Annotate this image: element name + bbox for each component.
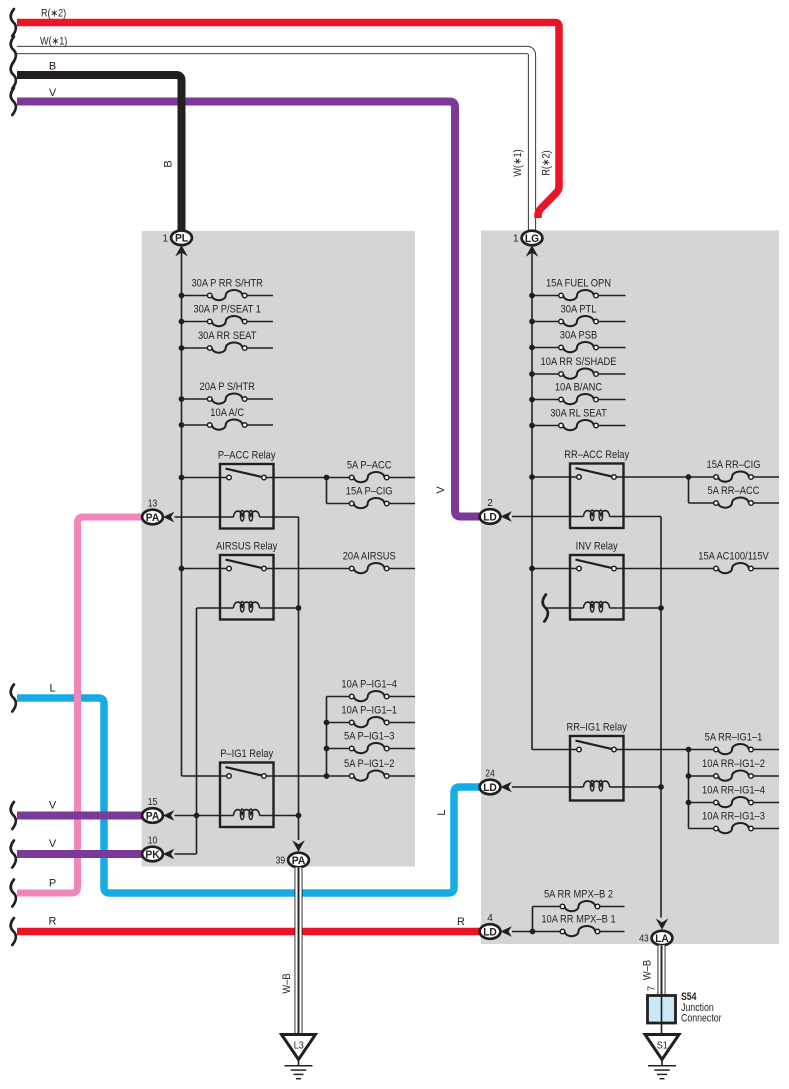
fuse 5A P–IG1–3: [327, 730, 416, 753]
wire L cyan: [17, 698, 486, 893]
wire P-ACC switch to fuses: [266, 477, 349, 479]
continuation squiggle L: [11, 685, 16, 712]
svg-text:L: L: [436, 809, 448, 815]
relay INV: [570, 541, 624, 620]
wire P-ACC coil to down-bus: [260, 516, 299, 518]
fuse 5A RR-ACC: [689, 485, 780, 508]
wire B black: [17, 75, 182, 231]
wire P-IG1 switch to fuses: [266, 775, 349, 777]
wire AIRSUS coil left leg: [197, 607, 234, 609]
wire V to 15-PA purple: [17, 812, 146, 820]
junction dot RR-CIG branch: [686, 474, 692, 480]
continuation squiggle R bottom: [11, 918, 16, 945]
wire AIRSUS coil to down-bus: [260, 607, 299, 609]
junction dot MPX branch: [530, 929, 536, 935]
svg-text:10A RR–IG1–4: 10A RR–IG1–4: [702, 784, 765, 796]
fuse 5A P-IG1-2: [344, 758, 415, 781]
continuation squiggle B: [11, 62, 16, 89]
svg-text:20A AIRSUS: 20A AIRSUS: [343, 550, 396, 562]
svg-text:39: 39: [276, 856, 286, 867]
fuse 10A RR–IG1–4: [689, 784, 780, 807]
wire 4-LD to MPX branch: [512, 931, 560, 933]
svg-text:5A P–ACC: 5A P–ACC: [347, 459, 392, 471]
fuse 30A RR SEAT: [182, 330, 274, 353]
svg-text:B: B: [163, 160, 175, 167]
wire branch to 5A RR-ACC: [688, 477, 690, 503]
svg-text:V: V: [49, 838, 57, 850]
fuse 5A RR-IG1-1: [705, 731, 779, 754]
continuation squiggle V10: [11, 841, 16, 868]
wire INV coil left with squiggle: [547, 607, 584, 609]
connector 24 LD: [480, 769, 512, 795]
svg-text:5A RR MPX–B 2: 5A RR MPX–B 2: [544, 888, 613, 900]
svg-text:LD: LD: [483, 926, 497, 938]
wire bus to AIRSUS switch: [182, 568, 227, 570]
wire bus to P-ACC switch: [182, 477, 227, 479]
svg-text:S1: S1: [657, 1041, 668, 1052]
ground L3: [282, 1035, 316, 1079]
svg-text:30A P P/SEAT 1: 30A P P/SEAT 1: [193, 303, 261, 315]
svg-text:43: 43: [639, 934, 649, 945]
relay RR-IG1: [567, 722, 628, 801]
fuse 15A FUEL OPN: [532, 277, 626, 300]
svg-text:V: V: [435, 486, 447, 494]
junction dot bus 30A P P/SEAT 1: [179, 319, 185, 325]
fuse 10A RR S/SHADE: [532, 356, 626, 379]
svg-text:RR–ACC Relay: RR–ACC Relay: [564, 449, 629, 461]
fuse 15A RR-CIG: [707, 459, 780, 482]
svg-text:PA: PA: [292, 855, 306, 867]
junction dot P-ACC switch: [179, 475, 185, 481]
svg-text:W–B: W–B: [642, 960, 654, 980]
wire bus to P-IG1 switch: [182, 775, 227, 777]
svg-text:24: 24: [485, 769, 495, 780]
fuse 10A RR–IG1–3: [689, 810, 780, 833]
wire RR-IG1 fuse branch vertical: [688, 750, 690, 829]
wire W-B to ground L3: [295, 867, 303, 1034]
svg-text:5A P–IG1–3: 5A P–IG1–3: [344, 730, 394, 742]
wire 13-PA to P-ACC coil: [175, 516, 234, 518]
fuse 20A P S/HTR: [182, 381, 274, 404]
wire V purple top: [17, 102, 486, 517]
connector 1 LG: [513, 231, 542, 257]
junction dot bus 10A B/ANC: [529, 397, 535, 403]
junction dot RR-ACC switch: [529, 474, 535, 480]
junction dot INV switch: [529, 566, 535, 572]
wire INV coil to down-bus: [610, 607, 662, 609]
wire W(*1) white: [17, 50, 532, 230]
relay block left (gray panel): [142, 231, 416, 867]
svg-text:RR–IG1 Relay: RR–IG1 Relay: [567, 722, 628, 734]
svg-text:R: R: [49, 916, 57, 928]
svg-text:10A RR MPX–B 1: 10A RR MPX–B 1: [541, 913, 615, 925]
svg-text:30A RL SEAT: 30A RL SEAT: [550, 407, 607, 419]
wire 15-PA to P-IG1 coil: [175, 815, 234, 817]
continuation squiggle R top: [11, 9, 16, 36]
fuse 15A P-CIG: [327, 485, 416, 508]
svg-text:INV Relay: INV Relay: [576, 541, 619, 553]
svg-text:20A P S/HTR: 20A P S/HTR: [200, 381, 255, 393]
fuse 10A P–IG1–4: [327, 678, 416, 701]
svg-text:L: L: [49, 683, 55, 695]
wire RR-ACC switch to fuses: [616, 476, 713, 478]
wire bus to RR-ACC switch: [532, 476, 577, 478]
svg-text:AIRSUS Relay: AIRSUS Relay: [216, 541, 278, 553]
relay block right (gray panel): [481, 231, 779, 945]
ground S1: [645, 1035, 679, 1079]
junction dot coil-left leg: [194, 813, 200, 819]
svg-text:15A RR–CIG: 15A RR–CIG: [707, 459, 761, 471]
fuse 30A P RR S/HTR: [182, 277, 274, 300]
junction dot AIRSUS switch: [179, 566, 185, 572]
junction dot bus 30A RL SEAT: [529, 423, 535, 429]
bus wire left box: [181, 253, 183, 777]
junction dot bus 30A PTL: [529, 319, 535, 325]
fuse 30A RL SEAT: [532, 407, 626, 430]
svg-text:V: V: [49, 87, 57, 99]
wire P-IG1 coil to down-bus: [260, 815, 299, 817]
svg-text:7: 7: [647, 985, 658, 991]
svg-text:5A RR–IG1–1: 5A RR–IG1–1: [705, 731, 763, 743]
wire bus to INV switch: [532, 568, 577, 570]
svg-text:2: 2: [487, 498, 493, 509]
svg-text:4: 4: [487, 913, 493, 924]
wire RR-ACC coil to down-bus: [610, 516, 662, 518]
wire RR-IG1 coil to down-bus: [610, 786, 662, 788]
connector 2 LD: [480, 498, 512, 524]
svg-text:10A RR–IG1–3: 10A RR–IG1–3: [702, 810, 765, 822]
relay AIRSUS: [216, 541, 278, 620]
junction dot bus 15A FUEL OPN: [529, 293, 535, 299]
wire relay coils to 39-PA: [298, 517, 300, 840]
wire P pink: [17, 517, 146, 893]
fuse 5A P-ACC: [347, 459, 415, 482]
junction dot P-IG1-1: [324, 720, 330, 726]
svg-text:10A B/ANC: 10A B/ANC: [555, 381, 602, 393]
continuation squiggle V: [11, 88, 16, 115]
svg-text:15A P–CIG: 15A P–CIG: [346, 485, 393, 497]
wire V to 10-PK purple: [17, 850, 146, 858]
junction dot bus 10A RR S/SHADE: [529, 371, 535, 377]
svg-text:5A P–IG1–2: 5A P–IG1–2: [344, 758, 394, 770]
svg-text:P–ACC Relay: P–ACC Relay: [218, 450, 276, 462]
svg-text:1: 1: [513, 234, 519, 245]
svg-text:LA: LA: [655, 933, 669, 945]
svg-text:10A P–IG1–4: 10A P–IG1–4: [341, 678, 397, 690]
fuse 10A RR MPX-B 1: [541, 913, 624, 936]
svg-text:W(∗1): W(∗1): [512, 149, 524, 176]
relay P-IG1: [220, 748, 274, 827]
junction dot bus 30A RR SEAT: [179, 345, 185, 351]
junction dot bus 30A P RR S/HTR: [179, 293, 185, 299]
svg-text:R(∗2): R(∗2): [541, 150, 553, 175]
fuse 30A PSB: [532, 329, 626, 352]
svg-text:10: 10: [148, 836, 158, 847]
svg-text:LD: LD: [483, 782, 497, 794]
continuation squiggle V15: [11, 802, 16, 829]
svg-text:W–B: W–B: [281, 973, 293, 993]
connector 13 PA: [142, 499, 174, 525]
fuse 30A PTL: [532, 303, 626, 326]
wire RR-IG1 switch to fuses: [616, 749, 713, 751]
wire coils to 43-LA vertical: [660, 517, 662, 918]
svg-text:1: 1: [163, 233, 169, 244]
fuse 15A AC100/115V: [616, 550, 779, 573]
connector 39 PA: [276, 840, 309, 867]
svg-text:30A P RR S/HTR: 30A P RR S/HTR: [191, 277, 263, 289]
relay RR-ACC: [564, 449, 629, 528]
fuse 10A B/ANC: [532, 381, 626, 404]
svg-text:R: R: [457, 916, 465, 928]
wire 10-PK to coil leg: [175, 853, 197, 855]
fuse 10A P–IG1–1: [327, 704, 416, 727]
wire W-B to S54: [658, 945, 666, 995]
relay P-ACC: [218, 450, 276, 529]
fuse 10A RR–IG1–2: [689, 758, 780, 781]
junction dot RR-IG1 branch: [686, 747, 692, 753]
svg-text:13: 13: [148, 499, 158, 510]
bus wire right box: [531, 253, 533, 750]
junction dot P-IG1 fuse branch: [324, 773, 330, 779]
wire P-IG1 fuse branch vertical: [326, 697, 328, 777]
fuse 20A AIRSUS: [266, 550, 415, 573]
connector 15 PA: [142, 797, 174, 823]
svg-text:5A RR–ACC: 5A RR–ACC: [708, 485, 760, 497]
junction connector S54: [648, 996, 676, 1035]
svg-text:V: V: [49, 800, 57, 812]
wire bus to RR-IG1 switch: [532, 749, 577, 751]
junction dot RR-IG1-4: [686, 800, 692, 806]
svg-text:30A PTL: 30A PTL: [561, 303, 597, 315]
junction dot P-IG1-3: [324, 746, 330, 752]
svg-text:15A FUEL OPN: 15A FUEL OPN: [546, 277, 611, 289]
svg-text:W(∗1): W(∗1): [40, 36, 67, 48]
connector 43 LA: [639, 918, 672, 945]
svg-text:30A PSB: 30A PSB: [560, 329, 597, 341]
svg-text:PK: PK: [145, 849, 159, 861]
wire R(*2) red: [17, 23, 559, 219]
svg-text:10A RR–IG1–2: 10A RR–IG1–2: [702, 758, 765, 770]
fuse 30A P P/SEAT 1: [182, 303, 274, 326]
wire MPX branch vertical: [532, 907, 534, 932]
svg-text:Connector: Connector: [681, 1013, 722, 1025]
junction dot INV coil: [658, 605, 664, 611]
junction dot AIRSUS coil: [296, 605, 302, 611]
svg-text:LD: LD: [483, 511, 497, 523]
connector 1 PL: [163, 231, 192, 257]
junction dot bus 20A P S/HTR: [179, 396, 185, 402]
connector 4 LD: [480, 913, 512, 939]
svg-text:P: P: [49, 878, 56, 890]
svg-text:B: B: [49, 61, 56, 73]
wire branch to 15A P-CIG: [326, 478, 328, 504]
junction dot bus 10A A/C: [179, 422, 185, 428]
svg-text:PA: PA: [146, 810, 160, 822]
svg-text:15: 15: [148, 797, 158, 808]
junction dot bus 30A PSB: [529, 345, 535, 351]
svg-text:10A P–IG1–1: 10A P–IG1–1: [341, 704, 397, 716]
junction dot RR-IG1-2: [686, 773, 692, 779]
svg-text:R(∗2): R(∗2): [41, 8, 66, 20]
fuse 10A A/C: [182, 407, 274, 430]
svg-text:10A RR S/SHADE: 10A RR S/SHADE: [541, 356, 617, 368]
svg-text:LG: LG: [525, 233, 539, 245]
svg-text:PL: PL: [175, 233, 188, 245]
svg-text:P–IG1 Relay: P–IG1 Relay: [220, 748, 273, 760]
svg-text:15A AC100/115V: 15A AC100/115V: [698, 550, 769, 562]
wire R red bottom: [17, 928, 486, 936]
svg-text:30A RR SEAT: 30A RR SEAT: [198, 330, 257, 342]
svg-text:L3: L3: [294, 1041, 304, 1052]
fuse 5A RR MPX-B 2: [533, 888, 625, 911]
junction dot P-IG1 coil right: [296, 813, 302, 819]
continuation squiggle P: [11, 880, 16, 907]
connector 10 PK: [142, 836, 174, 862]
wire 24-LD to RR-IG1 coil: [512, 786, 584, 788]
svg-text:PA: PA: [146, 512, 160, 524]
svg-text:10A A/C: 10A A/C: [210, 407, 244, 419]
junction dot 5A P-ACC branch: [324, 475, 330, 481]
junction dot RR-IG1 coil: [658, 784, 664, 790]
continuation squiggle W: [11, 37, 16, 64]
wire 2-LD to RR-ACC coil: [512, 516, 584, 518]
